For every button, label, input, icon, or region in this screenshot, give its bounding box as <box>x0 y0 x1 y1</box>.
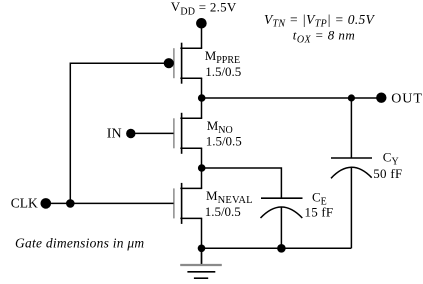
wire M_NO drain to node A <box>201 98 203 118</box>
svg-text:1.5/0.5: 1.5/0.5 <box>206 134 242 149</box>
svg-text:OUT: OUT <box>391 92 422 107</box>
wire bottom rail <box>202 247 352 249</box>
transistor M_PPRE <box>174 43 202 84</box>
wire C_Y bottom lead <box>350 167 352 248</box>
svg-text:VDD = 2.5V: VDD = 2.5V <box>171 0 237 17</box>
wire M_NEVAL drain to node B <box>201 168 203 188</box>
svg-text:CLK: CLK <box>11 195 38 210</box>
wire C_E bottom lead <box>280 207 282 248</box>
capacitor C_E <box>261 198 303 218</box>
wire ground lead <box>201 248 203 265</box>
junction dot M_PPRE gate <box>164 58 174 68</box>
svg-text:IN: IN <box>107 127 122 142</box>
wire left rail CLK to M_PPRE gate <box>69 63 71 205</box>
svg-text:50 fF: 50 fF <box>373 166 402 181</box>
junction dot C_E rail <box>277 244 286 253</box>
terminal VDD <box>196 18 207 29</box>
ground <box>180 265 222 278</box>
wire CLK gate lead <box>46 202 174 204</box>
wire C_Y top lead <box>350 98 352 158</box>
wire M_PPRE gate lead <box>70 62 173 64</box>
terminal CLK <box>41 198 52 209</box>
node GND junction <box>198 245 206 253</box>
transistor M_NEVAL <box>174 183 202 224</box>
svg-text:tOX = 8 nm: tOX = 8 nm <box>293 28 355 46</box>
wire node A to OUT <box>202 97 381 99</box>
wire node B to C_E <box>202 168 282 198</box>
terminal OUT <box>376 93 386 103</box>
transistor M_NO <box>174 113 202 154</box>
node A junction <box>198 94 206 102</box>
svg-text:1.5/0.5: 1.5/0.5 <box>205 204 241 219</box>
wire IN gate lead <box>131 132 174 134</box>
junction dot C_Y tap <box>348 94 355 101</box>
wire VDD lead <box>201 28 203 48</box>
svg-text:1.5/0.5: 1.5/0.5 <box>205 64 241 79</box>
junction dot CLK tee <box>66 199 75 208</box>
svg-text:15 fF: 15 fF <box>305 205 334 220</box>
capacitor C_Y <box>331 158 372 178</box>
node B junction <box>198 164 206 172</box>
svg-text:Gate dimensions in μm: Gate dimensions in μm <box>15 236 144 251</box>
svg-text:CY: CY <box>383 150 399 168</box>
wire M_NEVAL source to ground node <box>201 218 203 248</box>
terminal IN <box>126 129 135 138</box>
wire M_NO source to node B <box>201 148 203 168</box>
wire M_PPRE source to node A <box>201 78 203 98</box>
